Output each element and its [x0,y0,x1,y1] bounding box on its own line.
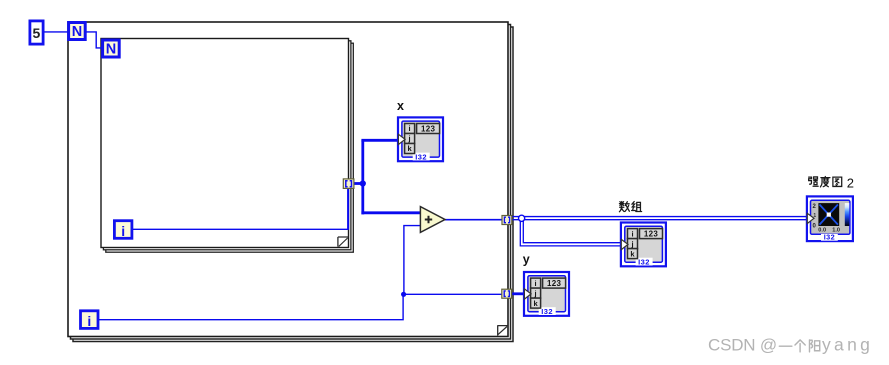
svg-text:i: i [87,313,91,329]
svg-text:5: 5 [33,25,41,41]
svg-text:I32: I32 [824,233,835,242]
svg-text:x: x [397,99,404,113]
svg-text:i: i [121,223,125,239]
svg-text:N: N [72,24,82,40]
svg-text:2: 2 [847,176,854,191]
svg-text:yang: yang [822,335,873,355]
svg-text:N: N [106,42,116,58]
svg-text:CSDN @: CSDN @ [708,336,777,355]
svg-text:y: y [523,252,530,266]
